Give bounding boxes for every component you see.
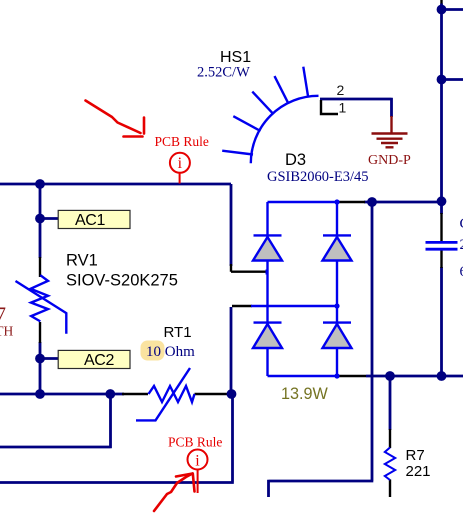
pin HS1 pin1 bracket (321, 100, 338, 114)
heatsink HS1 fin 2 (233, 116, 260, 131)
resistor R7 zigzag (385, 448, 395, 481)
wire heatsink pin2 to ground (320, 98, 392, 117)
wire bridge pin2 drop (230, 307, 233, 394)
pin RV1 bottom black (39, 322, 41, 343)
diode D3c triangle (253, 324, 282, 348)
diode D3c cathode bar (254, 321, 282, 323)
junction bus y=76 (437, 75, 447, 85)
svg-text:PCB Rule: PCB Rule (168, 435, 222, 450)
heatsink HS1 fin 1 (222, 151, 253, 155)
pin capacitor bottom black (440, 251, 442, 269)
wire mid vertical down with bottom hook (269, 201, 374, 497)
thermistor RT1 zigzag (149, 386, 195, 402)
junction R7 branch (385, 371, 395, 381)
pin R7 top black (389, 429, 391, 448)
svg-text:1: 1 (339, 100, 347, 116)
wire bridge plus output to bus (364, 201, 442, 204)
highlight behind 10 (141, 341, 165, 361)
annotation circle i bottom (188, 450, 208, 470)
pin RV1 top black (39, 257, 41, 277)
varistor RV1 strike (16, 281, 67, 334)
svg-text:13.9W: 13.9W (281, 385, 329, 403)
pin R7 bottom black (389, 480, 391, 498)
svg-text:GSIB2060-E3/45: GSIB2060-E3/45 (267, 169, 369, 185)
annotation arrow 2 head (176, 474, 195, 492)
annotation circle i top (170, 153, 190, 173)
capacitor plate bottom (426, 248, 458, 251)
svg-text:RT1: RT1 (164, 324, 192, 341)
junction plus rail / mid vertical (367, 197, 377, 207)
svg-text:68: 68 (460, 264, 463, 280)
junction bus / minus rail (437, 371, 447, 381)
node bridge top-right (334, 199, 339, 204)
svg-text:10 Ohm: 10 Ohm (146, 344, 195, 360)
heatsink HS1 arc (251, 96, 319, 163)
wire right bus upper (440, 4, 443, 215)
diode D3d triangle (323, 324, 352, 348)
wire left column upper segment (39, 184, 42, 258)
annotation arrow 2 shaft (154, 474, 193, 512)
wire bus stub y=10.5 (442, 8, 463, 11)
ground GND-P bar 4 (386, 146, 394, 148)
wire R7 column top (389, 376, 392, 430)
junction top rail / column (35, 179, 45, 189)
junction bus / plus rail (437, 196, 447, 206)
svg-text:2.52C/W: 2.52C/W (197, 64, 250, 80)
svg-text:C8: C8 (460, 216, 463, 232)
diode D3a triangle (253, 237, 282, 261)
wire drop from top rail to bridge pin1 (230, 184, 233, 266)
diode D3b triangle (323, 237, 352, 261)
wire bottom-right rail (366, 375, 463, 378)
svg-text:22: 22 (460, 237, 463, 253)
diode D3d cathode bar (323, 321, 351, 323)
svg-text:AC1: AC1 (75, 212, 105, 229)
junction AC1 stub (35, 214, 45, 224)
pin bridge plus output black (338, 201, 365, 203)
bridge D3 bottom rail (268, 375, 338, 377)
svg-text:D3: D3 (285, 151, 306, 169)
capacitor plate top (426, 241, 458, 244)
diode D3b cathode bar (323, 234, 351, 236)
wire bottom main left (0, 393, 124, 396)
heatsink HS1 fin 4 (275, 76, 289, 104)
svg-text:R7: R7 (406, 447, 425, 464)
wire AC2 stub (40, 357, 59, 360)
thermistor RT1 strike (136, 368, 190, 420)
heatsink HS1 fin 5 (303, 67, 308, 98)
bridge D3 middle rail (251, 305, 337, 307)
pin bridge pin1 black elbow (231, 264, 266, 272)
svg-text:GND-P: GND-P (368, 153, 411, 168)
svg-text:PCB Rule: PCB Rule (155, 134, 209, 149)
svg-text:SIOV-S20K275: SIOV-S20K275 (66, 272, 178, 290)
svg-text:i: i (195, 453, 200, 470)
pin capacitor top black (440, 213, 442, 241)
svg-text:RV1: RV1 (66, 252, 98, 270)
junction column / bottom wire (35, 389, 45, 399)
port AC1 box (58, 210, 130, 228)
node bridge mid-right (334, 303, 339, 308)
wire left column lower segment (39, 342, 42, 395)
annotation arrow 1 head (124, 118, 145, 137)
svg-text:i: i (178, 155, 183, 172)
pin top edge black stub (440, 0, 442, 5)
wire third return (y=482.5) (0, 394, 234, 483)
svg-text:221: 221 (406, 463, 431, 480)
junction bus y=10.5 (437, 5, 447, 15)
ground GND-P bar 3 (381, 142, 398, 144)
node bridge bottom-right (334, 373, 339, 378)
junction AC2 stub (35, 354, 45, 364)
pin bridge minus output black (337, 375, 366, 377)
svg-text:TH: TH (0, 323, 13, 338)
wire right bus lower (440, 267, 443, 377)
annotation leader bottom (197, 470, 199, 494)
ground GND-P stem (390, 116, 392, 133)
pin RT1 left black (122, 393, 148, 395)
pin RT1 right black (195, 393, 231, 395)
svg-text:2: 2 (337, 82, 345, 98)
wire second return (y=447) (0, 393, 111, 448)
annotation arrow 1 shaft (86, 101, 141, 134)
bridge D3 left column (266, 202, 268, 376)
junction return wire (105, 389, 115, 399)
wire bus stub y=76 (442, 78, 463, 81)
junction bridge pin2 node (227, 389, 237, 399)
bridge D3 right column (336, 202, 338, 376)
ground GND-P bar 1 (372, 132, 408, 134)
bridge D3 top rail (268, 201, 339, 203)
wire top rail AC net (0, 183, 231, 186)
port AC2 box (58, 350, 130, 368)
annotation leader top (179, 173, 181, 184)
wire AC1 stub (40, 217, 59, 220)
heatsink HS1 fin 3 (252, 92, 273, 115)
pin bridge pin2 black segment (232, 305, 252, 307)
varistor RV1 zigzag (31, 275, 49, 321)
pin bridge pin1 blue tick (266, 270, 268, 275)
ground GND-P bar 2 (377, 137, 403, 139)
svg-text:AC2: AC2 (84, 352, 114, 369)
diode D3a cathode bar (254, 234, 282, 236)
